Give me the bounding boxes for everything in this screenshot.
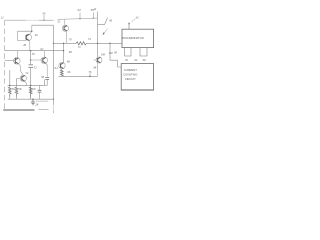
svg-text:58: 58	[18, 87, 22, 91]
transistor Q6 input	[25, 25, 32, 51]
wire vertical x9.8	[9, 70, 11, 87]
discriminator box	[122, 29, 154, 47]
junction x63.6 y43	[63, 43, 64, 44]
junction x97.5 y43	[97, 43, 98, 44]
pointer arrow 46	[104, 29, 108, 34]
junction dots rail y85.4	[9, 85, 10, 86]
svg-text:102: 102	[108, 51, 113, 55]
svg-text:DISCRIMINATOR: DISCRIMINATOR	[122, 36, 143, 40]
svg-text:28: 28	[35, 102, 39, 106]
transistor Q5 right	[94, 57, 103, 76]
junction x53.4 y99.2	[53, 99, 54, 100]
junction x30.7 y50.7	[30, 50, 31, 51]
svg-text:98: 98	[93, 65, 97, 69]
svg-text:58: 58	[41, 75, 45, 79]
counting box bottom edge	[121, 89, 153, 91]
svg-text:52: 52	[34, 66, 38, 70]
wire vertical x53.4 (output lead)	[52, 25, 54, 105]
junction stub 30	[43, 20, 44, 21]
svg-text:68: 68	[69, 50, 73, 54]
wire top rail seg2 (faded)	[26, 19, 39, 21]
svg-text:54: 54	[25, 71, 29, 75]
arrow into discriminator	[128, 23, 130, 29]
wire vertical x9.8 low	[10, 97, 31, 100]
capacitor 52	[29, 65, 34, 68]
stub 34	[79, 13, 81, 19]
stub 36	[92, 12, 94, 18]
svg-text:64: 64	[55, 66, 59, 70]
node stub 30	[43, 15, 45, 20]
wire top rail seg5	[58, 18, 98, 19]
wire left dashed border	[4, 20, 6, 110]
junction ground	[32, 99, 33, 100]
svg-text:100: 100	[101, 52, 106, 56]
svg-text:76: 76	[88, 70, 92, 74]
svg-text:48: 48	[23, 43, 27, 47]
resistor emitter x61.8	[60, 70, 63, 77]
svg-text:CIRCUIT: CIRCUIT	[125, 77, 136, 81]
svg-text:46: 46	[109, 19, 113, 23]
junction stub 34	[79, 18, 80, 19]
capacitor x39.5 plates	[38, 90, 42, 92]
svg-text:94: 94	[134, 58, 138, 62]
transistor Q2 mid	[31, 51, 48, 77]
svg-text:44: 44	[93, 7, 97, 11]
svg-text:62: 62	[40, 47, 44, 51]
svg-text:70: 70	[69, 38, 73, 42]
capacitor x39.5 leads	[39, 85, 41, 99]
wire vertical x16.5	[16, 79, 18, 88]
discriminator text	[122, 36, 143, 81]
wire stray segments near ground	[36, 101, 49, 110]
svg-text:30: 30	[42, 12, 46, 16]
svg-text:COUNTING: COUNTING	[123, 73, 137, 77]
wire bottom dashed border	[3, 109, 34, 111]
resistor x16.5	[15, 87, 18, 96]
pointer 42	[132, 19, 136, 22]
svg-text:34: 34	[77, 8, 81, 12]
wire cap x47 to rail	[46, 79, 48, 85]
counting box	[121, 64, 153, 90]
junction loop	[31, 31, 32, 32]
wire vertical x30.7	[30, 51, 32, 99]
junction x53.4 y50.7	[53, 50, 54, 51]
wire vertical x97.5	[97, 12, 99, 58]
junction x110 y43	[109, 43, 110, 44]
svg-text:12: 12	[1, 16, 5, 20]
stub x44.7	[44, 80, 46, 86]
ground	[31, 99, 35, 105]
resistor x30.7	[29, 87, 32, 96]
junction x30.7 y60	[30, 59, 31, 60]
capacitor 58 on x47	[45, 78, 49, 80]
svg-text:66: 66	[67, 70, 71, 74]
wire rail y85.4	[8, 84, 48, 86]
wire top edge y24	[32, 24, 54, 26]
wire rail y43.3	[53, 42, 122, 44]
transistor Q1 left	[5, 51, 21, 71]
svg-text:74: 74	[88, 37, 92, 41]
svg-text:42: 42	[136, 16, 140, 20]
svg-text:60: 60	[32, 87, 36, 91]
junction x63.6 y51	[63, 50, 64, 51]
svg-text:CURRENT: CURRENT	[124, 68, 137, 72]
labels (tiny italic numerals)	[1, 7, 147, 106]
svg-text:32: 32	[57, 20, 61, 24]
svg-text:72: 72	[78, 45, 82, 49]
wire top rail seg3	[39, 19, 53, 21]
transistor Q32 top	[62, 19, 68, 43]
resistor x9.8	[8, 87, 11, 96]
stub x90	[89, 73, 91, 76]
wire top rail seg4 (faded)	[53, 19, 56, 21]
junction x53.4 y43.3	[53, 43, 54, 44]
junction x90	[89, 76, 90, 77]
svg-text:50: 50	[32, 52, 36, 56]
wire rail mid-left y50.7	[5, 50, 64, 52]
svg-text:96: 96	[143, 58, 147, 62]
wire vertical x63.6	[63, 43, 65, 62]
svg-text:92: 92	[125, 58, 129, 62]
wire branch y24.4	[98, 18, 108, 25]
svg-text:68: 68	[67, 60, 71, 64]
transistor Q3 right of mid	[59, 62, 65, 69]
wire vertical x110	[110, 43, 121, 67]
svg-text:46: 46	[35, 33, 39, 37]
junction stub 36	[93, 18, 94, 19]
hooks below discriminator	[125, 48, 147, 56]
wire top rail seg1	[5, 19, 26, 21]
wire rail y99.2	[8, 98, 54, 100]
svg-text:56: 56	[12, 87, 16, 91]
resistor 72	[76, 42, 86, 45]
wire feedback loop	[18, 31, 32, 40]
wire rail y76.4	[59, 75, 98, 77]
transistor Q4 lower left	[17, 71, 27, 85]
svg-text:90: 90	[114, 50, 118, 54]
